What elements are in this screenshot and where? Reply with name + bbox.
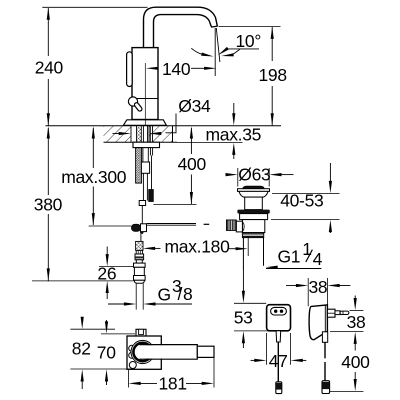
rod dash [204, 223, 210, 225]
arrow left 140 [146, 67, 158, 70]
clevis barrel [132, 224, 141, 231]
svg-text:70: 70 [97, 343, 116, 363]
svg-text:400: 400 [341, 352, 370, 372]
arrow right 47 [291, 359, 303, 362]
POPUP-WASTE [226, 186, 269, 270]
ext line 70-82 bottom [70, 368, 135, 370]
ext line thread left [135, 283, 137, 309]
svg-text:38: 38 [347, 312, 366, 332]
clevis block [141, 224, 147, 232]
dim line 380 upper [47, 128, 49, 195]
check valve braided hose [136, 241, 143, 250]
arrow down max300 [92, 213, 95, 225]
arrow down 38v [354, 296, 356, 303]
ext line seal bottom [271, 219, 340, 221]
POWER-SUPPLY-2 [309, 305, 349, 394]
arrow up max300 [92, 126, 95, 138]
DIM-181 [128, 357, 214, 394]
arrow up 53 [242, 331, 245, 343]
svg-text:G1: G1 [278, 246, 301, 266]
hose A union 2 [139, 201, 145, 206]
dim line 240 upper [47, 8, 49, 56]
svg-text:380: 380 [34, 195, 63, 215]
svg-text:max.35: max.35 [206, 125, 262, 145]
svg-text:53: 53 [234, 308, 253, 328]
dim tail 140 right [191, 67, 207, 69]
sensor window [127, 52, 133, 87]
arc arrowhead left [201, 53, 213, 57]
bracket ring bold [133, 343, 151, 361]
arrow right-hole dia34 [149, 132, 161, 135]
svg-text:10°: 10° [236, 31, 262, 51]
arrow up 380 [47, 126, 50, 138]
DIM-53 [234, 270, 276, 348]
DIM-38H [286, 277, 350, 306]
arc arrowhead right [221, 53, 233, 56]
sensor cable tube [149, 148, 151, 156]
waste tailpipe centerline [247, 236, 249, 256]
arrow up 240 [47, 7, 50, 19]
dim line 240 lower [47, 79, 49, 125]
sensor cable plug [149, 190, 154, 202]
wire to check valve [140, 234, 142, 242]
psu2 cable [324, 342, 326, 358]
arrow up 82 [81, 369, 84, 381]
bracket clamp ear top [129, 345, 135, 351]
arrow up 198 [271, 27, 274, 39]
DIM-240 [35, 7, 148, 125]
psu1 socket holes [274, 310, 277, 313]
svg-text:8: 8 [183, 284, 192, 304]
DIM-DIA63 [226, 164, 294, 186]
locknut [133, 142, 160, 147]
arrow left dia63 [226, 174, 231, 176]
ext line psu2 bottom [330, 330, 363, 332]
stream slant line [216, 28, 220, 62]
DIM-26 [97, 247, 133, 300]
arrow left 38h [286, 285, 300, 287]
svg-text:G: G [158, 284, 171, 304]
bracket tab [136, 329, 146, 337]
svg-text:82: 82 [72, 339, 91, 359]
check valve body top [134, 263, 146, 267]
DIM-G38 [108, 276, 192, 309]
faucet body [132, 48, 158, 120]
sensor cable wire [151, 156, 153, 190]
body joint line [132, 98, 158, 100]
psu1 cable [277, 342, 279, 382]
dim line 400p lower [354, 372, 356, 384]
psu2 body edge [324, 305, 326, 332]
COUNTER-DECK [46, 126, 282, 143]
waste cylinder [245, 197, 263, 210]
bracket screw hole [129, 362, 136, 369]
svg-text:38: 38 [309, 277, 328, 297]
dim line 400 upper [190, 128, 192, 154]
svg-text:Ø34: Ø34 [178, 96, 211, 116]
bracket pipe end [197, 346, 214, 357]
svg-text:4: 4 [313, 249, 323, 269]
arrow down to deck top [233, 103, 235, 116]
waste flange [238, 189, 270, 192]
arrow down 82 [81, 318, 83, 321]
deck hatch left [104, 126, 132, 143]
spout outer contour [144, 7, 218, 48]
waste tailpipe left edge [242, 238, 244, 270]
faucet centerline [144, 63, 146, 126]
lever pivot [128, 97, 137, 106]
arrow up 70 [105, 369, 108, 381]
ext line 380 bottom [32, 280, 134, 282]
hose A union [141, 162, 149, 173]
bracket clamp ear bottom [129, 352, 135, 358]
svg-text:26: 26 [97, 264, 116, 284]
DIM-MAX180 [143, 236, 248, 256]
arrow left-thread G38 [143, 302, 155, 305]
arrow up 40-53 [329, 229, 331, 233]
leader arrowhead 10deg [218, 47, 229, 55]
svg-text:1: 1 [302, 239, 311, 259]
ext line psu1 left [266, 333, 268, 365]
POWER-SUPPLY-1 [267, 305, 291, 394]
waste sub body [240, 214, 268, 220]
ext line psu2 right [326, 278, 328, 305]
svg-text:240: 240 [35, 58, 64, 78]
arrow right max180 [229, 248, 237, 250]
psu2 pin base [335, 311, 340, 315]
ext line thread right [142, 283, 144, 309]
ext line 82 top [70, 328, 115, 330]
waste port arc [242, 221, 244, 232]
ext line max300 bottom [89, 225, 132, 227]
psu1 body [267, 305, 291, 331]
arrow left-hole dia34 [119, 132, 131, 135]
arrow down 53 [242, 291, 245, 303]
lever handle [134, 102, 143, 112]
hose A wire [141, 206, 143, 225]
bracket ring outer [131, 340, 154, 363]
arrow down 240 [47, 113, 50, 125]
ext line psu2 left [307, 278, 309, 306]
hose A upper [142, 148, 144, 162]
deck hatch right [149, 126, 173, 143]
svg-text:47: 47 [269, 351, 288, 371]
arrow up 38v shared [354, 332, 357, 344]
dim line 198 upper [271, 27, 273, 61]
arrow down 198 [271, 113, 274, 125]
rod left segment [147, 223, 197, 225]
DIM-400-HOSE [153, 126, 206, 204]
arrow left max180 [143, 247, 155, 250]
check valve knurl strip [136, 250, 142, 254]
dim line 53 top tail [242, 270, 244, 297]
DIM-82 [70, 317, 115, 389]
psu2 cable connector [322, 332, 327, 343]
dim line 400p upper [354, 342, 356, 351]
arrow left 181 [128, 382, 140, 385]
dim line 181 left [139, 382, 157, 384]
ext line 181 left [127, 370, 129, 388]
psu1 plug [276, 382, 282, 394]
waste taper [239, 191, 268, 197]
arrow up 26 [106, 292, 108, 300]
threaded rod [136, 148, 142, 184]
psu2 plug collar [327, 309, 335, 317]
arrow down 40-53 [329, 163, 331, 185]
ext line flange right [268, 168, 270, 187]
DIM-198 [219, 27, 287, 126]
WALL-BRACKET [127, 329, 214, 369]
ext line flange left [237, 168, 239, 187]
DIM-G114 [265, 239, 322, 269]
ext line top [42, 6, 147, 8]
ext line psu1 top [234, 302, 266, 304]
check valve collar 1 [135, 254, 144, 260]
waste main body [242, 220, 264, 233]
psu1 cable stub [276, 331, 281, 342]
psu1 socket face [271, 307, 287, 315]
psu2 pin [340, 311, 349, 314]
ext line psu1 right [290, 333, 292, 365]
arrow down 26 [106, 247, 108, 257]
spout outlet face [211, 26, 218, 27]
dim line max300 upper [92, 128, 94, 168]
dim line 400 lower [190, 175, 192, 205]
waste knob [226, 220, 236, 231]
psu2 body [309, 305, 327, 340]
svg-text:181: 181 [159, 374, 187, 394]
deck bottom extension [177, 141, 243, 143]
ext line outlet [219, 26, 281, 28]
dim line max300 lower [92, 187, 94, 226]
arrow down 380 [47, 268, 50, 280]
base plate [123, 120, 166, 126]
svg-text:Ø63: Ø63 [238, 164, 270, 184]
ext line pin [350, 310, 364, 312]
deck bottom line [104, 141, 178, 143]
bracket plate [127, 336, 161, 369]
DIM-380 [32, 126, 134, 281]
ext line cable end psu2 [330, 391, 363, 393]
check valve neck [136, 260, 142, 263]
arrow left G114 [265, 266, 277, 269]
deck right edge [172, 126, 174, 143]
arrow up to deck bottom [233, 152, 235, 159]
DIM-47 [251, 333, 307, 371]
UNDERDECK-PARTS [132, 126, 160, 284]
arrow right dia63 [269, 173, 281, 176]
arrow down 400 [190, 192, 193, 204]
DIM-MAX300 [61, 126, 131, 226]
arc tail left [191, 48, 202, 54]
waste tailpipe right edge [263, 238, 265, 266]
arrow up 400 [190, 126, 193, 138]
svg-text:max.300: max.300 [61, 167, 127, 187]
svg-text:140: 140 [162, 59, 191, 79]
DIM-MAX35 [206, 103, 262, 159]
shank knurl in hole [137, 127, 142, 142]
arrow right 38h [327, 284, 339, 287]
svg-text:40-53: 40-53 [280, 190, 323, 210]
bracket pipe [139, 345, 197, 358]
leader G114 [266, 268, 321, 270]
DIM-70 [70, 320, 135, 385]
check valve body mid [134, 267, 144, 275]
clevis taper [140, 232, 144, 234]
spout inner contour [154, 15, 212, 48]
leader dia34 [166, 114, 177, 133]
svg-text:max.180: max.180 [165, 236, 231, 256]
dim line 198 lower [271, 86, 273, 125]
waste bottom ring [242, 233, 263, 238]
tail left dia34 [113, 133, 123, 135]
arc tail right [232, 49, 240, 54]
check valve collar 2 [134, 276, 146, 281]
DIM-38V [330, 296, 365, 344]
ext line cable end [153, 204, 196, 206]
stream vertical line [214, 28, 216, 76]
arrow right-thread G38 [108, 303, 125, 305]
svg-text:/: / [178, 284, 183, 304]
ext line 26 top [99, 266, 134, 268]
psu2 plug [322, 381, 330, 394]
shank through hole [137, 126, 153, 143]
DIM-140 [145, 59, 216, 126]
MAIN-FAUCET [123, 7, 217, 125]
leader G38 [155, 303, 192, 305]
arrow down 70 [106, 320, 108, 326]
hose A lower [142, 173, 144, 200]
deck top surface line [46, 125, 282, 127]
svg-text:198: 198 [259, 65, 287, 85]
ext line psu1 bottom [234, 330, 276, 332]
waste seal ring [237, 210, 269, 214]
leader 10deg [226, 48, 260, 50]
arrow right 140 [204, 67, 216, 70]
ext line 181 right [213, 357, 215, 388]
arrow left 47 [251, 359, 259, 361]
hole edge right [148, 126, 150, 143]
DIM-DIA34 [113, 96, 212, 135]
ext line 70 top [101, 333, 135, 335]
DIM-400-PSU [330, 342, 370, 392]
dim line 181 right [186, 382, 204, 384]
check valve bottom cap [134, 280, 144, 283]
arrow down 400p [354, 379, 357, 391]
svg-text:400: 400 [178, 154, 207, 174]
DIM-10DEG [191, 28, 261, 76]
arrow right 181 [202, 382, 214, 385]
hole edge left [130, 126, 132, 143]
waste cap dome [243, 186, 264, 189]
waste side port [236, 221, 242, 232]
dim line 380 lower [47, 214, 49, 281]
DIM-40-53 [271, 163, 340, 233]
PULL-ROD [147, 224, 210, 226]
ext line flange bottom [272, 192, 340, 194]
